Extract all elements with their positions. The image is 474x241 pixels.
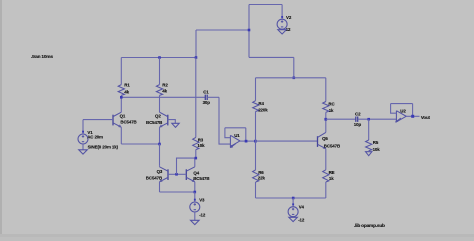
svg-text:BC547B: BC547B bbox=[193, 176, 209, 181]
node junction U1 output bbox=[245, 140, 248, 143]
svg-text:BC547B: BC547B bbox=[146, 120, 162, 125]
ground V4 bbox=[289, 217, 298, 221]
voltage source V4 bbox=[292, 198, 294, 207]
svg-text:4k: 4k bbox=[162, 89, 167, 94]
wire bases up to R3 node bbox=[177, 158, 196, 174]
node junction V4 top bbox=[292, 197, 295, 200]
resistor R1 bbox=[118, 85, 124, 96]
voltage source V3 bbox=[194, 192, 196, 202]
svg-text:4k: 4k bbox=[124, 89, 129, 94]
wire vertical at x249 bbox=[248, 5, 250, 58]
node junction x293.8 y77.8 bbox=[293, 77, 296, 80]
wire RC top lead bbox=[325, 78, 327, 102]
transistor Q5 bbox=[317, 136, 319, 147]
svg-text:R5: R5 bbox=[373, 140, 379, 145]
wire C1 node from Q1 collector bbox=[121, 96, 205, 98]
node junction x249 y30 bbox=[248, 29, 251, 32]
svg-text:1k: 1k bbox=[329, 108, 334, 113]
node junction Q5 collector bbox=[324, 118, 327, 121]
svg-text:Vout: Vout bbox=[421, 115, 431, 120]
node junction bases Q3 Q4 bbox=[175, 173, 178, 176]
transistor Q1 bbox=[112, 115, 114, 126]
ground V2 bbox=[278, 30, 287, 34]
svg-text:C2: C2 bbox=[355, 112, 361, 117]
svg-text:1k: 1k bbox=[329, 176, 334, 181]
node junction U2 output bbox=[411, 115, 414, 118]
svg-text:Q3: Q3 bbox=[157, 169, 163, 174]
resistor RC bbox=[323, 102, 329, 113]
resistor RE bbox=[323, 170, 329, 182]
node junction rail end x196 bbox=[195, 56, 198, 59]
node junction R4 R6 bbox=[254, 140, 257, 143]
wire V+ rail diff pair bbox=[121, 57, 196, 59]
svg-text:BC547B: BC547B bbox=[120, 120, 136, 125]
svg-text:SINE(0 20m 1k): SINE(0 20m 1k) bbox=[88, 145, 119, 150]
svg-text:V4: V4 bbox=[299, 204, 305, 209]
wire collector node to C2 bbox=[326, 118, 356, 120]
wire U2 output bbox=[406, 115, 419, 117]
wire vertical x196 down to rail bbox=[195, 30, 197, 58]
svg-text:.tran 10ms: .tran 10ms bbox=[31, 54, 53, 60]
transistor Q3 (mirrored) bbox=[167, 169, 169, 180]
resistor R5 bbox=[368, 119, 370, 140]
svg-text:R1: R1 bbox=[124, 83, 130, 88]
resistor R3 bias bbox=[195, 58, 197, 138]
wire C1 down to U1 bbox=[219, 97, 230, 144]
svg-text:R3: R3 bbox=[198, 137, 204, 142]
window bottom edge bbox=[0, 234, 474, 237]
voltage source V2 bbox=[281, 16, 283, 18]
svg-text:C1: C1 bbox=[203, 89, 209, 94]
node junction Q1 collector bbox=[120, 96, 123, 99]
svg-text:-12: -12 bbox=[199, 212, 206, 217]
wire Q3 Q4 emitter rail bbox=[160, 191, 195, 193]
svg-text:Q4: Q4 bbox=[193, 170, 199, 175]
capacitor C1 bbox=[205, 95, 207, 100]
ground V1 bbox=[79, 150, 88, 154]
window left edge bbox=[0, 0, 2, 241]
wire top rail to V2 bbox=[249, 4, 282, 6]
svg-text:10p: 10p bbox=[354, 122, 362, 127]
svg-text:10k: 10k bbox=[373, 147, 381, 152]
voltage source V1 bbox=[82, 120, 84, 135]
svg-text:.lib opamp.sub: .lib opamp.sub bbox=[354, 223, 385, 229]
node junction R3 bottom bbox=[195, 157, 198, 160]
svg-text:V3: V3 bbox=[199, 197, 205, 202]
svg-text:U1: U1 bbox=[234, 133, 240, 138]
svg-text:10k: 10k bbox=[197, 143, 205, 148]
resistor R4 bbox=[253, 101, 259, 112]
op-amp U1 bbox=[230, 135, 240, 146]
node junction V3 top bbox=[194, 191, 197, 194]
wire bottom rail second stage bbox=[256, 197, 326, 199]
svg-text:30p: 30p bbox=[203, 100, 211, 105]
svg-text:-12: -12 bbox=[298, 217, 305, 222]
wire second stage rail bbox=[256, 77, 326, 79]
svg-text:R6: R6 bbox=[258, 170, 264, 175]
transistor Q2 (mirrored) bbox=[167, 115, 169, 126]
wire U1 output bbox=[240, 140, 256, 142]
node junction R5 top bbox=[367, 118, 370, 121]
ground V3 bbox=[191, 220, 200, 224]
Q2 base to ground bbox=[168, 120, 176, 124]
wire R4 top lead bbox=[255, 78, 257, 101]
svg-text:220k: 220k bbox=[258, 107, 268, 112]
svg-text:BC547B: BC547B bbox=[324, 143, 340, 148]
svg-text:R4: R4 bbox=[258, 101, 264, 106]
transistor Q4 bbox=[185, 169, 187, 180]
capacitor C2 bbox=[356, 117, 358, 122]
ground R5 bbox=[366, 152, 372, 156]
resistor R6 bbox=[253, 170, 259, 182]
wire jog y30 bbox=[196, 29, 249, 31]
ground Q2 base bbox=[172, 123, 179, 127]
svg-text:Q1: Q1 bbox=[120, 113, 126, 118]
svg-text:RC: RC bbox=[328, 101, 335, 106]
wire V+ rail 2 bbox=[249, 56, 294, 58]
svg-text:V2: V2 bbox=[286, 15, 292, 20]
svg-text:AC 20m: AC 20m bbox=[87, 135, 103, 140]
svg-text:Q2: Q2 bbox=[155, 113, 161, 118]
wire vertical x293.8 bbox=[293, 57, 295, 77]
node junction emitter rail bbox=[158, 143, 161, 146]
resistor R2 bbox=[156, 85, 162, 96]
svg-text:Q5: Q5 bbox=[322, 136, 328, 141]
wire emitter rail bbox=[121, 143, 159, 145]
svg-text:BC547B: BC547B bbox=[146, 176, 162, 181]
wire V2 top lead bbox=[281, 5, 283, 20]
svg-text:R2: R2 bbox=[162, 83, 168, 88]
wire down to Q3 collector bbox=[159, 144, 161, 165]
svg-text:RE: RE bbox=[329, 170, 335, 175]
wire Q5 base bbox=[256, 140, 318, 142]
svg-text:U2: U2 bbox=[400, 108, 406, 113]
node junction R2 top bbox=[158, 56, 161, 59]
svg-text:22k: 22k bbox=[258, 176, 266, 181]
op-amp U2 bbox=[396, 111, 406, 122]
